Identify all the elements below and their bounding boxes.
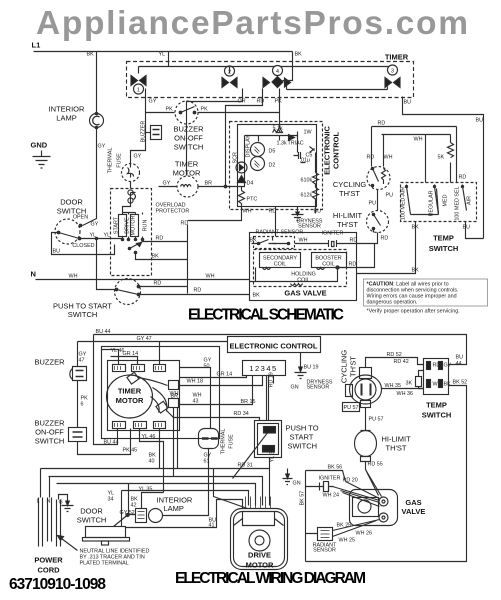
svg-text:ON-OFF: ON-OFF	[174, 134, 203, 143]
svg-text:RD: RD	[349, 262, 357, 268]
svg-text:SWITCH: SWITCH	[77, 516, 107, 525]
wire RD heater top	[372, 127, 457, 183]
svg-text:GY: GY	[98, 144, 106, 150]
wire RD from contact 4	[262, 89, 264, 99]
svg-text:LAMP: LAMP	[164, 504, 184, 513]
svg-text:SWITCH: SWITCH	[422, 411, 452, 420]
svg-text:START: START	[114, 216, 120, 234]
svg-text:BK 52: BK 52	[453, 380, 468, 386]
svg-text:WH: WH	[69, 274, 78, 280]
wire WH EC bottom left	[188, 207, 242, 221]
svg-text:3: 3	[391, 69, 394, 75]
svg-text:GN: GN	[293, 481, 301, 487]
svg-text:BK: BK	[412, 225, 420, 231]
svg-text:RD 20: RD 20	[343, 478, 358, 484]
wire BU door common to motor	[52, 233, 115, 255]
svg-text:TH'ST: TH'ST	[386, 444, 407, 453]
svg-text:ELECTRONIC: ELECTRONIC	[323, 126, 332, 175]
svg-text:IGNITER: IGNITER	[322, 231, 344, 237]
svg-text:BR: BR	[171, 394, 179, 400]
svg-text:AIR: AIR	[467, 196, 473, 205]
svg-text:PK: PK	[201, 107, 209, 113]
temp switch wiring	[424, 359, 449, 395]
svg-text:BU 44: BU 44	[104, 440, 119, 446]
svg-text:TH'ST: TH'ST	[339, 189, 360, 198]
neutral note arrow	[58, 536, 78, 551]
wire BU41 door to motor	[126, 500, 243, 528]
svg-text:GAS VALVE: GAS VALVE	[284, 289, 326, 298]
svg-text:WH 24: WH 24	[323, 493, 339, 499]
svg-text:LAMP: LAMP	[56, 114, 76, 123]
svg-text:BK: BK	[412, 268, 420, 274]
svg-text:BU 19: BU 19	[304, 365, 319, 371]
svg-text:SWITCH: SWITCH	[174, 143, 204, 152]
buzzer on-off switch S2	[175, 101, 198, 124]
svg-text:GN: GN	[291, 385, 299, 391]
svg-text:PK: PK	[166, 107, 174, 113]
svg-text:44: 44	[456, 361, 462, 367]
temp switch blades	[407, 185, 467, 215]
svg-text:GR 14: GR 14	[123, 351, 139, 357]
svg-text:TIMER: TIMER	[118, 387, 142, 396]
svg-text:1W: 1W	[304, 130, 313, 136]
wire WH heater second	[382, 135, 451, 183]
svg-text:L: L	[37, 499, 40, 505]
EC triac	[289, 132, 298, 141]
svg-text:GY: GY	[91, 222, 99, 228]
svg-text:TIMER: TIMER	[385, 53, 409, 62]
svg-text:WH 18: WH 18	[187, 379, 203, 385]
svg-text:BU: BU	[476, 118, 484, 124]
svg-text:PK 45: PK 45	[123, 448, 138, 454]
svg-text:100 MED SEL: 100 MED SEL	[455, 186, 461, 220]
svg-text:BK: BK	[87, 52, 95, 58]
timer contact 4	[263, 77, 291, 88]
svg-text:34: 34	[108, 497, 114, 503]
bus B3	[57, 484, 256, 506]
svg-text:SWITCH: SWITCH	[35, 437, 65, 446]
svg-text:COIL: COIL	[322, 262, 335, 268]
svg-text:12345: 12345	[249, 364, 277, 373]
wire BU44 top bus	[94, 335, 467, 365]
wire PK buzzer switch left	[146, 112, 175, 114]
svg-text:dangerous operation.: dangerous operation.	[367, 300, 418, 306]
svg-text:WH: WH	[414, 137, 423, 143]
wire GR14 pin2	[111, 357, 138, 365]
svg-text:BK: BK	[250, 238, 258, 244]
svg-text:*Verify proper operation after: *Verify proper operation after servicing…	[367, 309, 460, 315]
svg-text:SENSOR: SENSOR	[307, 385, 330, 391]
svg-text:BK: BK	[295, 52, 303, 58]
svg-text:OPEN: OPEN	[73, 215, 88, 221]
wire WH18	[179, 376, 263, 386]
svg-text:.01μ: .01μ	[300, 158, 311, 164]
svg-text:GY: GY	[134, 154, 142, 160]
svg-text:MOTOR: MOTOR	[173, 169, 201, 178]
motor dashed box	[111, 189, 152, 276]
svg-text:47: 47	[79, 358, 85, 364]
svg-text:TRIAC: TRIAC	[288, 141, 304, 147]
power cord prongs	[39, 498, 61, 547]
svg-text:PROTECTOR: PROTECTOR	[156, 209, 190, 215]
wire RD55 hi-limit to valve	[366, 462, 382, 497]
wire GY lamp to door switch open	[83, 128, 97, 226]
svg-text:BK 25: BK 25	[337, 523, 352, 529]
wire YL34 to door switch	[121, 491, 123, 527]
EC relay circles D5 D2	[251, 143, 265, 157]
svg-text:VALVE: VALVE	[402, 507, 426, 516]
dryness sensor ground	[292, 207, 304, 221]
svg-text:RD: RD	[433, 363, 441, 369]
wire PU57 cycling to hi-limit	[365, 408, 367, 431]
wire RD to electronic control node	[226, 99, 263, 187]
svg-text:ON-OFF: ON-OFF	[35, 428, 64, 437]
svg-text:D5: D5	[269, 149, 276, 155]
svg-text:PTC: PTC	[247, 197, 258, 203]
resistor 5K	[448, 135, 454, 183]
svg-text:RD: RD	[154, 281, 162, 287]
wire power G to ground	[59, 495, 74, 512]
svg-text:CONTROL: CONTROL	[332, 132, 341, 169]
svg-text:RD: RD	[257, 99, 265, 105]
gas valve outer box	[250, 233, 357, 301]
svg-text:START: START	[290, 433, 314, 442]
timer inner box	[108, 361, 180, 431]
svg-text:BK: BK	[444, 382, 452, 388]
svg-text:FUSE: FUSE	[117, 153, 123, 168]
svg-text:3K: 3K	[406, 381, 413, 387]
EC resistor 610k	[313, 173, 319, 185]
svg-text:HI-LIMIT: HI-LIMIT	[382, 435, 412, 444]
temp switch dashed box	[401, 183, 477, 222]
wire BU timer3 down and right	[403, 97, 484, 239]
svg-text:MOTOR: MOTOR	[131, 215, 137, 235]
wire RD push start upper	[139, 286, 188, 288]
timer cam upper	[127, 372, 139, 384]
wire GY timer motor left	[159, 186, 178, 188]
wire RD34	[167, 411, 260, 421]
svg-text:MED: MED	[443, 194, 449, 206]
svg-text:YL: YL	[104, 233, 111, 239]
wire OR to timer motor	[187, 99, 243, 176]
gas valve dashed box	[254, 250, 347, 287]
svg-text:5.1k: 5.1k	[273, 126, 283, 132]
svg-text:PU: PU	[369, 201, 377, 207]
wire timer internal bus	[139, 67, 393, 74]
svg-text:SWITCH: SWITCH	[68, 310, 98, 319]
timer cam lower	[156, 401, 168, 413]
EC diode D4	[238, 176, 246, 183]
svg-text:43: 43	[193, 399, 199, 405]
svg-text:BU: BU	[456, 355, 464, 361]
svg-text:CORD: CORD	[37, 566, 60, 575]
wire RD52 cycling to temp	[366, 358, 424, 368]
wire N bus WH	[36, 279, 250, 281]
svg-text:WH 25: WH 25	[339, 538, 355, 544]
wire PK buzzer switch right	[198, 112, 280, 114]
svg-text:CYCLING: CYCLING	[340, 350, 349, 384]
svg-text:FUSE: FUSE	[229, 434, 235, 449]
wire GY47 buzzer line	[78, 342, 228, 367]
wire BK temp switch down to gas valve	[357, 222, 416, 274]
svg-text:BK: BK	[253, 293, 261, 299]
svg-text:TH'ST: TH'ST	[337, 220, 358, 229]
booster coil	[312, 253, 347, 268]
bus B1 RD31	[41, 468, 270, 470]
svg-text:RD: RD	[156, 236, 164, 242]
electronic control box	[228, 337, 321, 353]
bus B2	[49, 477, 263, 506]
svg-text:PU: PU	[386, 193, 394, 199]
drive motor M1	[231, 509, 288, 570]
wire BK56 igniter bus	[306, 471, 346, 562]
svg-text:RD 19: RD 19	[269, 372, 275, 387]
svg-text:POWER: POWER	[34, 556, 63, 565]
svg-text:RD: RD	[194, 288, 202, 294]
wire RD EC to radiant sensor	[275, 207, 277, 237]
svg-text:WH: WH	[243, 209, 252, 215]
svg-text:D2: D2	[269, 163, 276, 169]
svg-text:PU 57: PU 57	[369, 417, 384, 423]
wire RD hi-limit to igniter row	[349, 233, 378, 244]
wire YL46 pin2 bottom	[140, 429, 164, 493]
EC internal wiring	[245, 122, 298, 179]
EC connector 1 2 3 4 5	[243, 361, 286, 376]
EC PTC	[239, 191, 245, 204]
svg-text:PUSH TO: PUSH TO	[286, 424, 319, 433]
svg-text:6: 6	[81, 402, 84, 408]
svg-text:RD: RD	[367, 155, 375, 161]
svg-text:CYCLING: CYCLING	[333, 180, 367, 189]
svg-text:RD: RD	[378, 121, 386, 127]
svg-text:4: 4	[276, 69, 279, 75]
svg-text:D4: D4	[247, 181, 254, 187]
svg-text:2: 2	[228, 70, 231, 76]
timer dashed box	[127, 62, 414, 98]
EC cap .01u	[294, 152, 306, 163]
svg-text:ELECTRICAL SCHEMATIC: ELECTRICAL SCHEMATIC	[188, 307, 344, 324]
svg-text:BR 15: BR 15	[241, 399, 256, 405]
electronic control dashed box	[230, 122, 323, 210]
svg-text:BK 56: BK 56	[328, 465, 343, 471]
svg-text:RD: RD	[381, 236, 389, 242]
wire PK6 buzzer to switch	[77, 381, 79, 428]
svg-text:RD 34: RD 34	[234, 411, 249, 417]
wire BK motor lower	[136, 253, 188, 260]
svg-text:TH'ST: TH'ST	[349, 356, 358, 377]
hi-limit thermostat wiring	[355, 431, 377, 457]
svg-text:THERMAL: THERMAL	[221, 429, 227, 455]
svg-text:BUZZER: BUZZER	[141, 121, 147, 143]
timer bottom pins	[113, 422, 126, 429]
svg-text:BUZZER: BUZZER	[35, 419, 66, 428]
radiant sensor wiring	[318, 528, 333, 541]
timer aux contacts	[169, 381, 179, 390]
svg-text:AppliancePartsPros.com: AppliancePartsPros.com	[36, 5, 468, 42]
svg-text:DRIVE: DRIVE	[248, 551, 271, 560]
EC resistor 5.1k	[273, 130, 281, 133]
ground GN near motor	[283, 469, 293, 485]
svg-text:YL 46: YL 46	[142, 434, 156, 440]
svg-text:COIL: COIL	[274, 262, 287, 268]
wire BU EC bottom	[315, 207, 317, 214]
svg-text:GY: GY	[163, 181, 171, 187]
svg-text:WH 35: WH 35	[385, 383, 401, 389]
wire YL46 pin1	[102, 350, 119, 365]
svg-text:YL 35: YL 35	[139, 487, 153, 493]
svg-text:DISPLAY: DISPLAY	[246, 135, 252, 158]
svg-text:MOTOR: MOTOR	[246, 561, 274, 570]
svg-text:WH: WH	[206, 274, 215, 280]
node x96 run to push-to-start	[97, 239, 116, 290]
svg-text:1: 1	[137, 88, 140, 94]
svg-text:42: 42	[131, 503, 137, 509]
svg-text:BU 44: BU 44	[96, 329, 111, 335]
svg-text:WH: WH	[299, 238, 308, 244]
svg-text:SCR: SCR	[233, 152, 239, 163]
timer contact 1	[131, 76, 146, 86]
svg-text:SENSOR: SENSOR	[313, 548, 336, 554]
wire PK from contact 4 to electronic control	[279, 89, 281, 122]
svg-text:GR 14: GR 14	[217, 372, 233, 378]
wire WH35 cycling to temp	[382, 388, 424, 390]
svg-text:RD 42: RD 42	[394, 359, 409, 365]
wires fan to gas valve upper terminal	[333, 482, 380, 507]
thermal fuse TF1	[199, 429, 219, 449]
svg-text:61: 61	[204, 459, 210, 465]
svg-text:TEMP: TEMP	[426, 401, 447, 410]
wire BU19 EC ground	[295, 353, 307, 379]
svg-text:PK: PK	[275, 99, 283, 105]
svg-text:WH 36: WH 36	[397, 391, 413, 397]
svg-text:50: 50	[204, 364, 210, 370]
svg-text:INTERIOR: INTERIOR	[49, 105, 85, 114]
svg-text:GND: GND	[31, 141, 48, 150]
svg-text:GY: GY	[444, 363, 452, 369]
svg-text:IGNITER: IGNITER	[319, 476, 341, 482]
svg-text:BK 57: BK 57	[300, 491, 306, 506]
wire BU44 left drop	[94, 335, 118, 445]
svg-text:GY 52: GY 52	[120, 510, 135, 516]
svg-text:BK: BK	[152, 254, 160, 260]
svg-text:N: N	[47, 499, 51, 505]
svg-text:41: 41	[209, 523, 215, 529]
timer outer box	[102, 347, 220, 439]
svg-text:MOTOR: MOTOR	[116, 396, 144, 405]
svg-text:TEMP: TEMP	[433, 234, 454, 243]
svg-text:BUZZER: BUZZER	[35, 358, 66, 367]
timer top pins	[113, 365, 126, 372]
svg-text:PU 57: PU 57	[344, 405, 359, 411]
svg-text:GY 47: GY 47	[137, 336, 152, 342]
motor windings	[119, 215, 127, 237]
timer contact 2	[222, 78, 237, 88]
wire P2S to bus B1	[269, 458, 271, 506]
gas valve body	[350, 490, 398, 526]
svg-text:WH: WH	[384, 155, 393, 161]
svg-text:RADIANT SENSOR: RADIANT SENSOR	[256, 230, 304, 236]
svg-text:BU: BU	[53, 249, 61, 255]
secondary coil	[260, 253, 301, 268]
wire PU cycling to hi-limit	[377, 190, 379, 211]
overload protector	[128, 190, 133, 195]
push to start switch S3	[115, 279, 141, 305]
svg-text:N: N	[31, 270, 36, 279]
wire BK42 to lamp	[129, 484, 136, 515]
wire contact4 to contact3	[287, 83, 388, 90]
wire WH43	[174, 408, 178, 477]
svg-text:BUZZER: BUZZER	[174, 125, 205, 134]
svg-text:1.3k: 1.3k	[277, 141, 287, 147]
wire RD bus vertical	[187, 225, 189, 294]
wire power N up	[49, 477, 51, 498]
svg-text:DOOR: DOOR	[80, 507, 103, 516]
wire BR timer motor right	[198, 179, 245, 187]
caution box	[364, 279, 488, 306]
svg-text:L1: L1	[32, 41, 41, 50]
svg-text:YL 34: YL 34	[270, 449, 276, 463]
wire feed motor extra	[214, 469, 248, 509]
svg-text:ELECTRICAL WIRING DIAGRAM: ELECTRICAL WIRING DIAGRAM	[175, 570, 366, 587]
wire YL35 lamp top	[142, 493, 164, 509]
svg-text:ELECTRONIC CONTROL: ELECTRONIC CONTROL	[230, 342, 318, 351]
svg-text:G: G	[59, 500, 63, 506]
EC resistor 612k	[313, 188, 319, 200]
svg-text:100 MED-AIR: 100 MED-AIR	[401, 187, 407, 220]
svg-text:RD: RD	[350, 238, 358, 244]
svg-text:HI-LIMIT: HI-LIMIT	[333, 211, 363, 220]
svg-text:TIMER: TIMER	[175, 160, 199, 169]
wire OR from contact 2	[242, 89, 244, 99]
push to start switch S3	[255, 421, 282, 458]
bus B4	[122, 491, 249, 506]
timer contact 3	[385, 78, 400, 88]
motor centrifugal switch	[130, 242, 143, 249]
wires radiant sensor to valve	[306, 520, 380, 537]
wire L1 bus	[34, 51, 293, 53]
wire BK40 pin3 bottom	[159, 429, 161, 469]
svg-text:SWITCH: SWITCH	[288, 442, 318, 451]
wire BK52 temp to bottom bus	[306, 386, 467, 562]
svg-text:SWITCH: SWITCH	[429, 244, 459, 253]
svg-text:40: 40	[149, 459, 155, 465]
svg-text:THERMAL: THERMAL	[108, 148, 114, 174]
svg-text:5K: 5K	[438, 155, 445, 161]
svg-text:610k: 610k	[301, 178, 313, 184]
wire GY50 to thermal fuse	[180, 368, 211, 429]
svg-text:BU: BU	[463, 225, 471, 231]
timer motor M2	[107, 375, 153, 418]
svg-text:CLOSED: CLOSED	[72, 243, 94, 249]
svg-text:RD 52: RD 52	[387, 352, 402, 358]
wire RD push start lower	[139, 294, 250, 296]
wire power L up	[40, 469, 42, 498]
svg-text:BU: BU	[314, 209, 322, 215]
svg-text:COIL: COIL	[297, 278, 310, 284]
wire RD motor to bus	[143, 241, 188, 243]
wire BU temp switch to bus	[466, 222, 484, 239]
svg-text:63710910-1098: 63710910-1098	[9, 576, 106, 593]
svg-text:BR: BR	[205, 181, 213, 187]
wire GY contact1 to buzzer/thermal fuse	[131, 89, 146, 164]
svg-text:612k: 612k	[301, 193, 313, 199]
svg-text:PLATED TERMINAL: PLATED TERMINAL	[80, 561, 129, 567]
svg-text:GY: GY	[149, 99, 157, 105]
wire PK45 switch to timer	[78, 429, 131, 455]
svg-text:YL: YL	[159, 52, 166, 58]
electronic control inner box	[238, 125, 317, 207]
svg-text:DOOR: DOOR	[60, 198, 83, 207]
